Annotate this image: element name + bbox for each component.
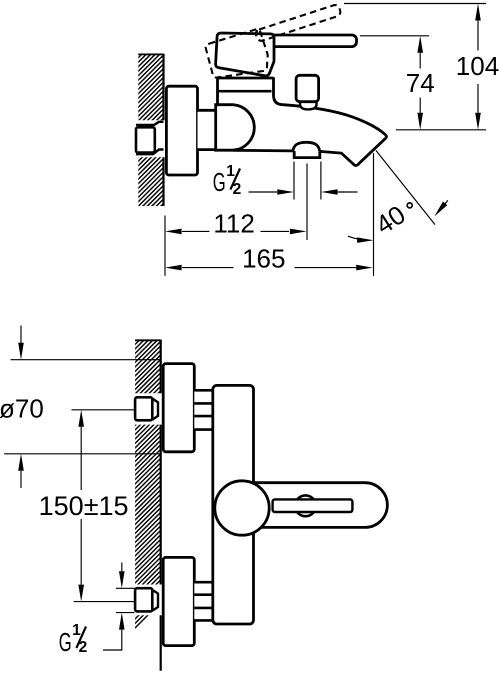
G1/2 dimension (front view) <box>103 563 135 651</box>
G1/2 label (front view) <box>59 622 87 657</box>
diverter knob (side view) <box>296 75 319 101</box>
dimension 112 <box>165 208 307 238</box>
reference line escutcheon bottom <box>4 453 160 455</box>
extension line top (lever raised) <box>344 3 486 5</box>
svg-text:2: 2 <box>79 639 88 656</box>
spout (front view) fill <box>250 483 387 528</box>
handle knob circle (front view) <box>215 481 269 535</box>
hose outlet boss under spout <box>294 151 320 158</box>
handle body (side view) <box>216 33 274 76</box>
extension line spout bottom <box>396 129 486 131</box>
lower connector ribs <box>194 582 213 620</box>
spout body fill (white) <box>233 105 387 166</box>
svg-text:2: 2 <box>233 181 242 198</box>
extension lines outlet boss <box>294 162 321 241</box>
spout outline (side view) <box>283 105 386 166</box>
40 degree arc arrow (left, at vertical line) <box>348 236 373 243</box>
cartridge housing (side view) <box>218 77 284 105</box>
lower inlet nut (front view) <box>135 588 158 611</box>
diverter knob base <box>300 101 317 109</box>
reference line escutcheon centre <box>72 409 136 411</box>
svg-text:74: 74 <box>406 68 435 98</box>
inlet fitting through wall (side view) <box>136 122 164 154</box>
svg-text:ø70: ø70 <box>0 394 44 424</box>
inlet nut (side view) <box>136 127 155 152</box>
extension line spout tip <box>373 153 375 276</box>
svg-text:1: 1 <box>72 622 81 639</box>
40 degree leader line <box>376 151 435 225</box>
top reference arrow <box>18 326 24 360</box>
dia70 lower arrow <box>18 454 24 488</box>
G1/2 label (side view) <box>213 163 241 198</box>
svg-text:G: G <box>59 627 72 657</box>
svg-text:G: G <box>213 167 226 197</box>
body end dome (side view) <box>216 105 255 151</box>
body (front view) <box>213 385 254 624</box>
connector stub between flange and body <box>198 110 217 149</box>
diverter knob (front view) <box>295 495 316 516</box>
wall (side view, hatched) <box>95 0 195 668</box>
spout slot (front view) <box>273 499 353 512</box>
handle raised position (dashed) <box>203 2 350 86</box>
dimension 74 <box>406 36 435 130</box>
extension line lever top <box>360 35 429 37</box>
svg-text:104: 104 <box>456 51 499 81</box>
wall (front view, hatched) <box>135 340 161 671</box>
lever bar (side view) <box>269 35 357 47</box>
lower escutcheon (front view) <box>163 557 194 645</box>
spout (front view) outline <box>251 483 387 528</box>
dimension 165 <box>165 244 373 274</box>
upper escutcheon (front view) <box>163 364 194 452</box>
extension line wall face <box>164 216 166 276</box>
escutcheon flange (side view) <box>166 86 197 175</box>
upper connector ribs <box>194 390 213 429</box>
dimension 104 <box>456 4 499 130</box>
svg-text:150±15: 150±15 <box>39 491 129 521</box>
dimension G1/2 (side view) <box>249 189 358 195</box>
dimension 150 +/- 15 <box>39 410 135 602</box>
outlet boss arc <box>293 142 320 151</box>
svg-text:1: 1 <box>226 163 235 180</box>
body bottom line <box>233 149 293 152</box>
reference line escutcheon top <box>11 359 161 361</box>
upper inlet nut (front view) <box>135 397 158 420</box>
svg-text:165: 165 <box>242 244 285 274</box>
svg-text:112: 112 <box>213 208 254 238</box>
40 degree arrow (right, at leader) <box>434 200 448 216</box>
